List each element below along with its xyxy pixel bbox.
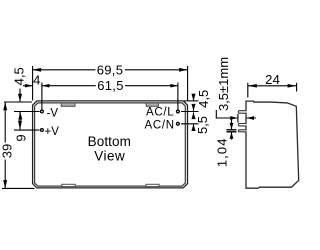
svg-text:+V: +V xyxy=(45,126,60,138)
svg-text:1,04: 1,04 xyxy=(214,137,229,167)
svg-text:AC/N: AC/N xyxy=(145,119,175,131)
svg-text:61,5: 61,5 xyxy=(97,78,124,93)
svg-text:4,5: 4,5 xyxy=(11,67,26,85)
svg-text:39: 39 xyxy=(0,144,15,158)
svg-text:3,5±1mm: 3,5±1mm xyxy=(216,57,231,111)
svg-text:-V: -V xyxy=(47,107,59,119)
svg-text:69,5: 69,5 xyxy=(97,63,124,78)
svg-text:Bottom: Bottom xyxy=(88,134,131,149)
svg-text:9: 9 xyxy=(13,134,28,141)
svg-text:5,5: 5,5 xyxy=(195,116,210,134)
svg-text:4,5: 4,5 xyxy=(196,90,211,108)
svg-text:AC/L: AC/L xyxy=(146,106,174,118)
svg-text:View: View xyxy=(94,149,125,164)
svg-text:24: 24 xyxy=(265,72,280,87)
svg-text:4: 4 xyxy=(33,72,40,87)
